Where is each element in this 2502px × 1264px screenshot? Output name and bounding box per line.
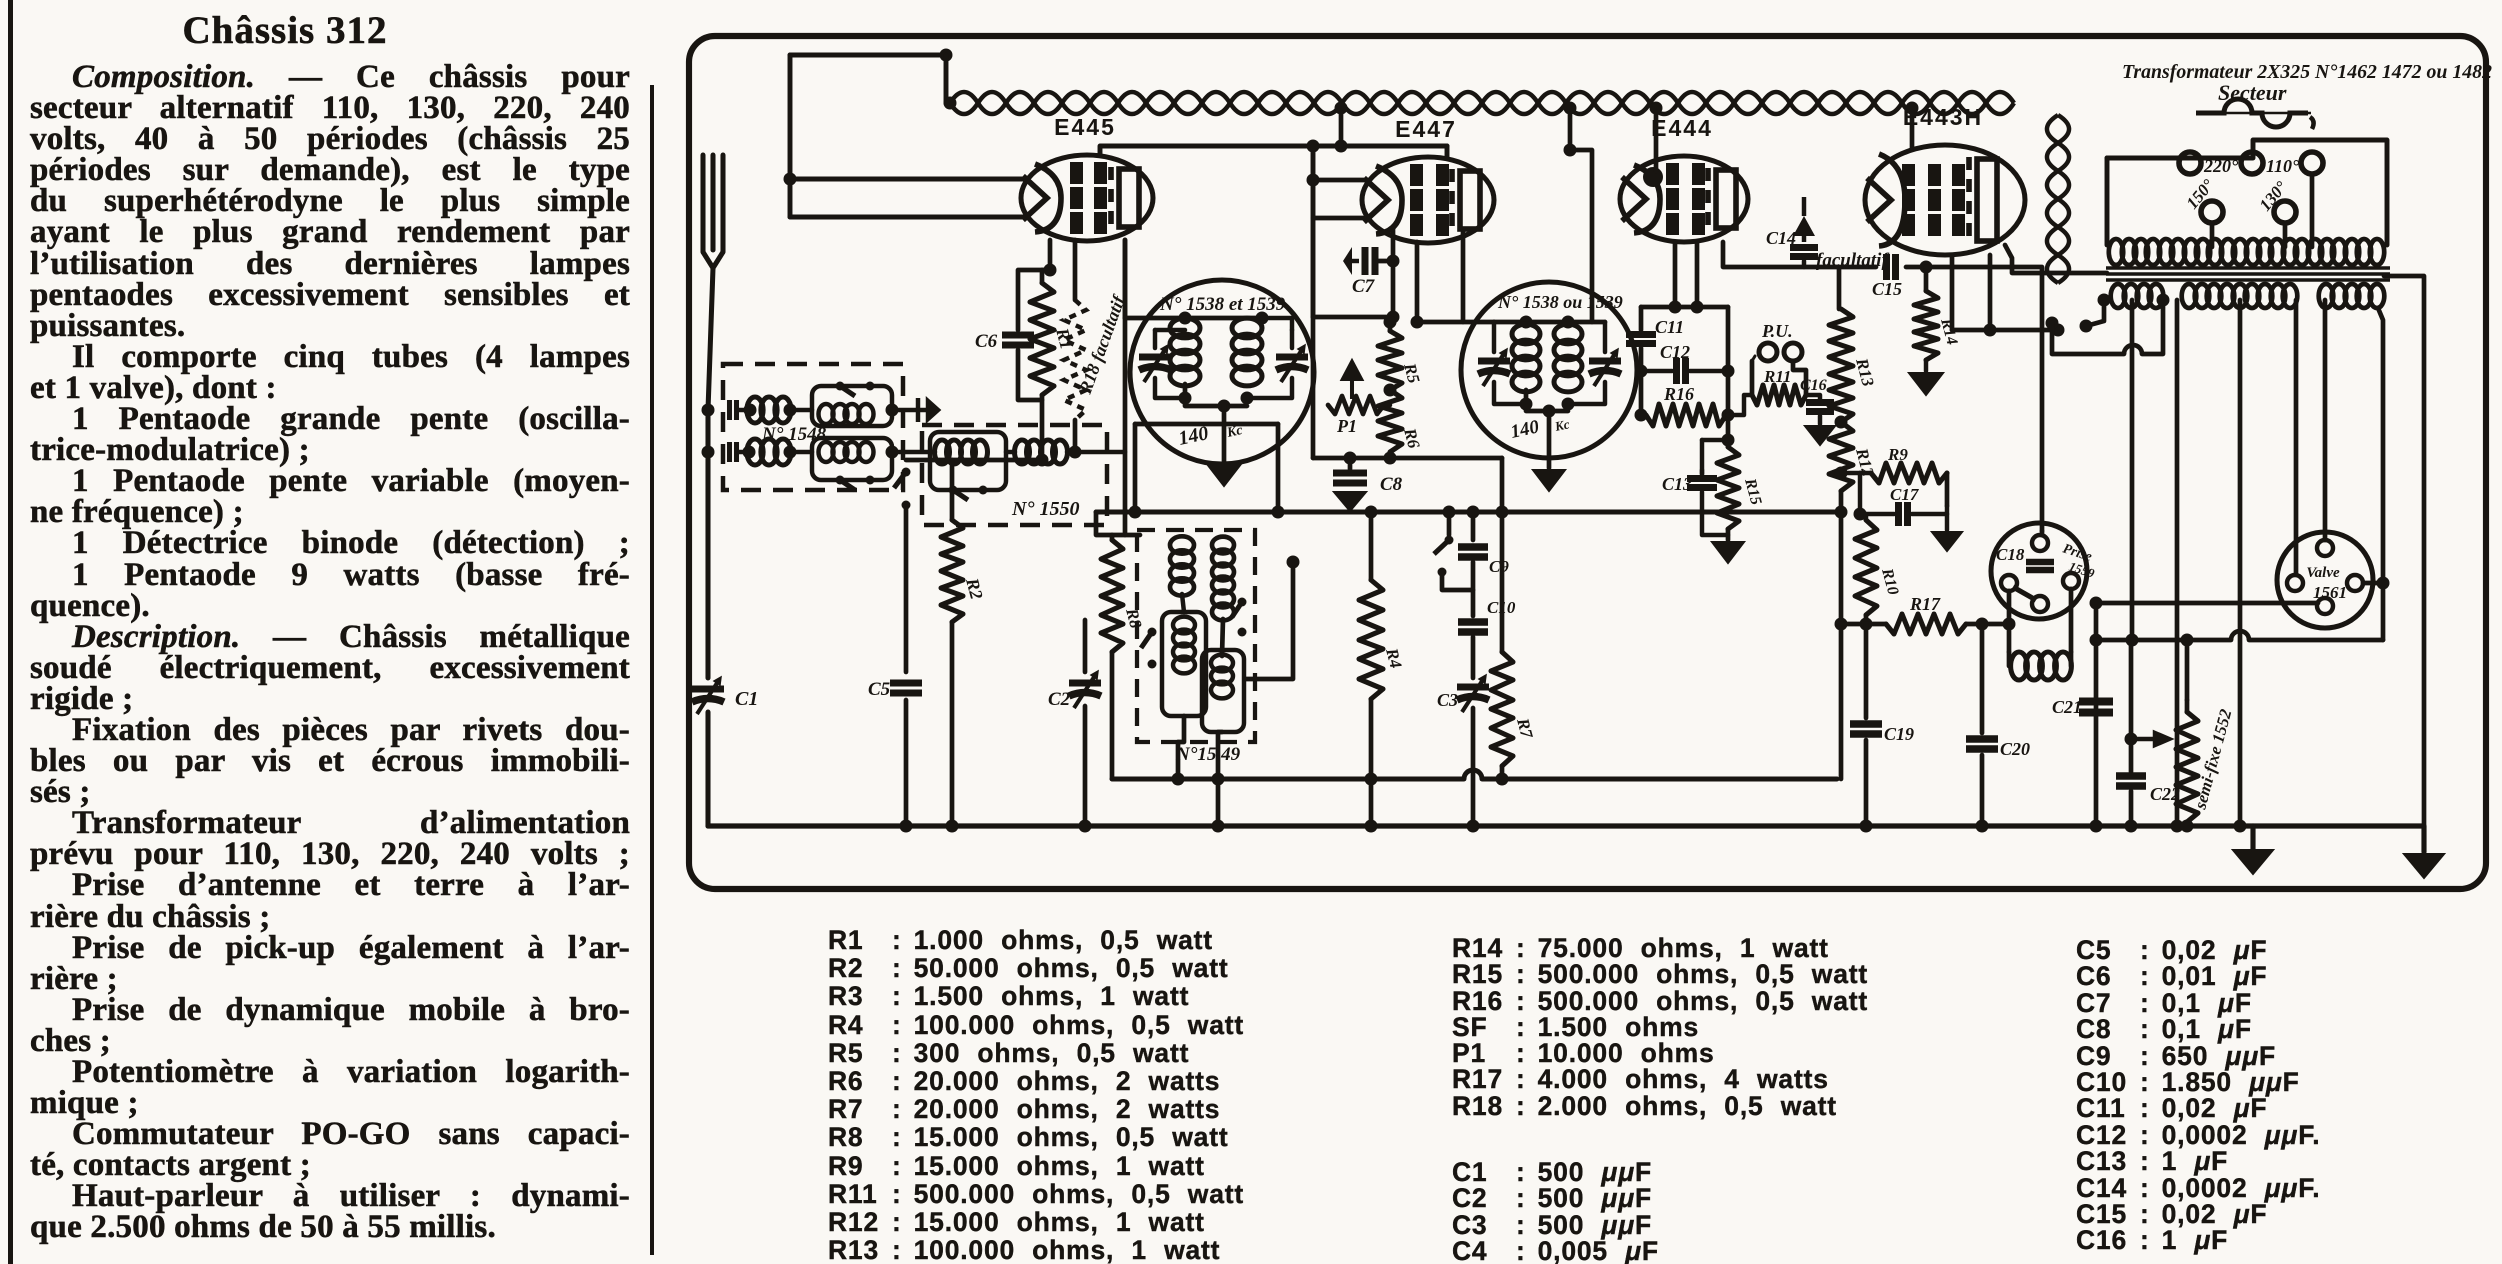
wire: E447 anode leg <box>1461 232 1466 322</box>
wire: C2 leg <box>1083 620 1088 672</box>
wire: right cell leg / R7 feed <box>1500 458 1505 652</box>
svg-text:C21: C21 <box>2052 697 2082 717</box>
svg-text:R9: R9 <box>1887 445 1908 464</box>
resistor R6 <box>1378 390 1402 452</box>
wire: IF1 top <box>1125 316 1262 321</box>
binode tube E444 <box>1620 156 1748 242</box>
wire: E443H anode to output transformer <box>2005 245 2107 273</box>
wire: PU right leg <box>1793 361 1806 395</box>
svg-text:R11: R11 <box>1763 367 1791 386</box>
capacitor (antenna series) <box>730 400 737 420</box>
ground (bus tap) <box>2233 850 2273 874</box>
svg-text:Kc: Kc <box>1553 416 1571 434</box>
wire: bus ground tap <box>2250 826 2255 850</box>
pentode tube E447 <box>1362 157 1494 243</box>
wire: braid to E443H <box>1910 112 1915 148</box>
wire: C1 to ground bus <box>705 712 710 826</box>
wire: R4 bottom <box>1369 699 1374 826</box>
wire: osc join <box>1222 619 1223 656</box>
ground (IF2) <box>1533 470 1565 491</box>
svg-text:C10: C10 <box>1487 598 1516 617</box>
wire: cathode return bus right <box>1482 777 1837 782</box>
capacitor C19 <box>1850 724 1882 734</box>
capacitor C7 with AVC arrow <box>1343 247 1352 275</box>
svg-text:R13: R13 <box>1852 355 1878 389</box>
pentode tube E445 <box>1021 155 1153 241</box>
wire: braid end to E445 top-left <box>790 53 946 58</box>
ground (R14) <box>1909 373 1943 395</box>
wire: IF2 top <box>1494 320 1605 325</box>
svg-text:C8: C8 <box>1380 474 1403 495</box>
resistor R4 <box>1359 580 1383 699</box>
wire: R16 to R11 <box>1728 395 1752 415</box>
coil: antenna secondary PO <box>747 439 791 465</box>
output pentode tube E443H <box>1865 145 2025 255</box>
node: braid tap 2 <box>1564 102 1577 115</box>
wire: heater to braid end <box>1952 328 2058 333</box>
svg-text:C9: C9 <box>1489 557 1509 576</box>
wire: R1 to cathode bus <box>1040 395 1045 460</box>
svg-text:C11: C11 <box>1655 317 1684 337</box>
svg-text:1559: 1559 <box>2067 559 2097 581</box>
wire: R17 bus <box>1841 622 1886 627</box>
resistor R12 <box>1829 422 1853 491</box>
trimmer capacitor (IF1) <box>1139 345 1171 382</box>
capacitor C5 <box>890 683 922 693</box>
wire: heater return <box>2052 323 2124 354</box>
svg-text:C16: C16 <box>1800 377 1827 394</box>
svg-text:Transformateur 2X325 N°1462: Transformateur 2X325 N°1462 1472 ou 1482 <box>2122 61 2492 83</box>
coil: osc padder winding <box>1202 650 1244 732</box>
variable capacitor C3 <box>1457 675 1489 712</box>
ground (IF1) <box>1207 464 1241 486</box>
svg-text:140: 140 <box>1509 416 1542 443</box>
wire: E444 pin leg <box>1673 242 1678 307</box>
svg-text:130°: 130° <box>2256 177 2291 214</box>
wire: to E445 grid circuit <box>1067 450 1125 454</box>
svg-text:C18: C18 <box>1996 545 2025 564</box>
rectifier valve 1561 <box>2277 532 2373 628</box>
capacitor C14 (facultatif) <box>1793 216 1815 236</box>
wire: switch leg <box>1447 512 1452 535</box>
svg-text:C17: C17 <box>1890 485 1920 504</box>
transformer core <box>2106 268 2390 280</box>
svg-text:N° 1550: N° 1550 <box>1011 498 1079 520</box>
mains plug symbol <box>2196 99 2308 127</box>
svg-text:P1: P1 <box>1336 416 1357 436</box>
wire: E445 cathode down <box>1048 240 1053 270</box>
ground (C8) <box>1334 492 1366 511</box>
svg-text:Valve: Valve <box>2306 565 2340 581</box>
coil: osc tapped winding with switch <box>1162 612 1206 716</box>
antenna <box>710 155 715 250</box>
trimmer capacitor (IF1 sec) <box>1276 345 1308 382</box>
coil: IF1 primary <box>1170 318 1200 386</box>
oscillator coil box N°1549 <box>1137 530 1255 742</box>
wire: twisted pair drop on right <box>2047 115 2069 283</box>
trimmer capacitor (IF2 sec) <box>1589 349 1621 386</box>
capacitor C10 <box>1458 622 1488 632</box>
svg-text:N°15 49: N°15 49 <box>1175 744 1241 765</box>
resistor R16 <box>1646 404 1726 426</box>
coil: transformer primary <box>2109 239 2384 265</box>
wire: down to IF2 <box>1570 150 1592 322</box>
wire: R2 to bus <box>950 622 955 826</box>
wire: HT- line right <box>2249 638 2383 643</box>
wire: tap 110 lead <box>2310 174 2315 247</box>
svg-text:C6: C6 <box>975 331 998 352</box>
wire: E445 cathode network <box>906 458 1042 463</box>
svg-text:C20: C20 <box>2000 739 2030 759</box>
wire: anode to IF2 <box>1417 320 1494 325</box>
wire: IF1 ground stem <box>1222 406 1227 462</box>
svg-text:C13: C13 <box>1662 474 1692 494</box>
coil: rectifier heater secondary <box>2319 284 2385 308</box>
resistor R9 <box>1871 463 1947 483</box>
wire: C19 leg <box>1864 624 1869 718</box>
transformer tap <box>2201 201 2223 223</box>
wire: detector node <box>1641 305 1728 310</box>
coil box N°1548 (antenna coils) <box>723 364 903 490</box>
wire: main ground bus <box>708 826 2424 852</box>
wire: AF coupling to Prise <box>1926 267 2042 531</box>
ground (detector) <box>1712 542 1744 563</box>
wire: HT lead to valve <box>2294 300 2299 574</box>
speaker socket Prise 1559 <box>1991 523 2087 619</box>
svg-text:C5: C5 <box>868 679 891 700</box>
svg-text:E443H: E443H <box>1903 104 1983 130</box>
wire: R2 top <box>950 460 955 520</box>
wire: braid to E444 top <box>1654 112 1659 171</box>
wire: HT centre tap to ground <box>2238 300 2243 826</box>
capacitor C20 <box>1966 739 1998 749</box>
svg-text:150°: 150° <box>2183 175 2218 212</box>
wire: R4 top <box>1369 512 1374 580</box>
wire: osc leg <box>1178 716 1184 779</box>
wire: to E447 <box>1313 178 1364 183</box>
transformer tap <box>2301 152 2323 174</box>
wire: valve right pin stub <box>2363 581 2383 586</box>
ground (C17) <box>1932 532 1962 551</box>
wire: HT winding lead <box>2175 300 2180 826</box>
wire: braid tap <box>1339 112 1344 146</box>
resistor R7 <box>1491 652 1513 766</box>
coil: IF2 primary <box>1512 324 1540 392</box>
resistor R5 <box>1378 331 1402 390</box>
pick-up jack P.U. <box>1759 343 1777 361</box>
svg-text:R2: R2 <box>962 575 987 601</box>
wire: to osc box <box>1096 512 1140 535</box>
wire: C8 stem <box>1348 458 1353 469</box>
variable capacitor C2 <box>1069 671 1101 708</box>
column divider rule <box>650 85 654 1255</box>
schematic border frame <box>689 36 2486 889</box>
svg-text:R10: R10 <box>1878 566 1902 597</box>
wire: AVC bus <box>1096 510 1839 515</box>
node: braid tap 1 <box>1335 102 1348 115</box>
capacitor C6 <box>1002 335 1034 345</box>
transformer tap <box>2179 152 2201 174</box>
wire: semi-fixe top <box>2185 640 2190 700</box>
ground (C16) <box>1805 426 1835 445</box>
wire: winding to valve anode <box>2323 300 2328 540</box>
coil: heater secondary <box>2111 284 2164 308</box>
capacitor C21 <box>2079 702 2113 713</box>
coil box N°1550 (oscillator coils) <box>922 425 1107 525</box>
svg-text:C2: C2 <box>1048 689 1071 710</box>
wire: C20 leg <box>1980 624 1985 733</box>
wire: cathode return bus <box>1112 777 1464 782</box>
wire: C6 branch <box>1018 270 1050 330</box>
svg-text:P.U.: P.U. <box>1761 321 1793 341</box>
wire: to E445 grid side <box>790 215 1024 220</box>
capacitor C15 <box>1887 254 1896 280</box>
svg-text:N° 1538 et 1539: N° 1538 et 1539 <box>1159 294 1286 315</box>
transformer tap <box>2241 152 2263 174</box>
wire: E447 left drop <box>1311 146 1316 317</box>
resistor R18 (facultatif, dashed) <box>1064 300 1086 420</box>
svg-text:1561: 1561 <box>2313 583 2347 602</box>
svg-text:R18 facultatif: R18 facultatif <box>1075 291 1130 397</box>
wire: C5 to bus <box>904 700 909 826</box>
wire: E447 grid leg <box>1415 242 1420 322</box>
resistor R10 <box>1855 520 1877 615</box>
wire: IF2 bottom <box>1526 390 1568 411</box>
wire: HT- line <box>2096 638 2231 643</box>
wire: E444 pin leg 2 <box>1695 242 1700 307</box>
wire: twisted-pair heater line (top) <box>950 92 2014 114</box>
coil: HT secondary <box>2182 284 2298 308</box>
wire: to E445 cathode side <box>790 177 1024 182</box>
transformer tap <box>2274 201 2296 223</box>
resistor R1 <box>1030 283 1054 395</box>
wire: tap 150 lead <box>2210 223 2215 247</box>
variable capacitor C1 <box>692 677 724 714</box>
wire: valve cathode line <box>2096 601 2318 606</box>
wire: left drop <box>788 55 793 217</box>
svg-text:R17: R17 <box>1909 594 1941 614</box>
wire: E443H heater leg <box>1950 255 1955 330</box>
capacitor C11 <box>1626 335 1656 344</box>
wire: E447 cathode leg <box>1391 228 1396 317</box>
wire: C22 leg <box>2129 640 2134 772</box>
svg-text:N° 1538 ou 1539: N° 1538 ou 1539 <box>1497 292 1623 312</box>
svg-text:220°: 220° <box>2203 156 2239 176</box>
svg-text:C7: C7 <box>1352 276 1376 297</box>
capacitor C22 <box>2116 776 2146 786</box>
wire: heater CT down <box>2130 300 2135 640</box>
resistor R17 <box>1886 614 1966 634</box>
potentiometer P1 <box>1328 396 1384 414</box>
wire: primary tap box <box>2107 140 2387 245</box>
wire: osc feedback <box>1246 562 1293 679</box>
coil: output choke <box>2011 652 2072 680</box>
svg-text:C19: C19 <box>1884 724 1914 744</box>
page left edge rule <box>8 0 13 1264</box>
wire: E443H heater leg 2 <box>1988 255 1993 330</box>
node: braid tap 3 <box>1650 102 1663 115</box>
svg-text:R16: R16 <box>1663 384 1694 404</box>
capacitor C16 <box>1806 403 1834 412</box>
capacitor C9 <box>1458 547 1488 557</box>
coil: osc padding PO in box <box>930 432 1006 490</box>
wire: arrow to oscillator section <box>918 398 938 422</box>
svg-text:C14: C14 <box>1766 228 1796 248</box>
resistor semi-fixe 1552 <box>2176 712 2198 822</box>
wire: cell left <box>1311 317 1316 458</box>
wire: tap 130 lead <box>2283 223 2288 247</box>
potentiometer P1 arrow <box>1343 362 1361 399</box>
resistor R8 <box>1101 540 1123 652</box>
svg-text:C12: C12 <box>1660 342 1690 362</box>
svg-text:C1: C1 <box>735 688 758 710</box>
wire: IF1 cage <box>1135 422 1278 427</box>
wire: antenna lead down <box>708 268 713 678</box>
svg-text:R8: R8 <box>1122 605 1146 631</box>
trimmer capacitor (IF2) <box>1478 349 1510 386</box>
coil: osc anode winding <box>1212 537 1234 621</box>
wire: E445 grid2 down <box>1073 240 1078 300</box>
IF transformer T2 N°1538 ou 1539 <box>1461 282 1637 458</box>
wire: cell bottom <box>1313 456 1502 461</box>
E444 diode pin dot <box>1643 167 1663 187</box>
wire: C17 left <box>1858 473 1862 514</box>
svg-text:C15: C15 <box>1872 279 1902 299</box>
svg-text:E444: E444 <box>1651 115 1713 141</box>
coil: antenna secondary GO with switch <box>812 438 892 480</box>
svg-text:E447: E447 <box>1395 116 1457 142</box>
wire: core to main ground <box>2384 276 2424 826</box>
arrow to semi-fixe wiper <box>2131 733 2169 745</box>
coil: antenna primary PO <box>747 397 791 423</box>
wire: IF2 ground stem <box>1547 411 1552 468</box>
wire: E445 anode to IF1 <box>1123 240 1128 318</box>
wire: IF1 bottom <box>1185 384 1247 406</box>
switch lever in socket <box>2013 587 2036 600</box>
ground (main, bottom right) <box>2404 854 2444 878</box>
capacitor C13 <box>1687 479 1717 488</box>
svg-text:110°: 110° <box>2266 156 2300 176</box>
capacitor C18 <box>2026 562 2054 570</box>
resistor R2 <box>941 520 963 622</box>
svg-text:C3: C3 <box>1437 690 1458 710</box>
capacitor C12 <box>1677 358 1686 384</box>
wire: PU left leg <box>1750 361 1755 395</box>
wire: down to osc box <box>1123 318 1128 535</box>
resistor R15 <box>1717 447 1739 529</box>
svg-text:R15: R15 <box>1741 476 1765 507</box>
resistor R11 <box>1752 385 1806 405</box>
wire: heater winding to braid <box>2086 300 2104 326</box>
wire: R8 to bus <box>1110 652 1115 779</box>
resistor R14 <box>1914 291 1938 360</box>
coil: antenna primary GO with shorting switch <box>812 386 892 426</box>
wire: R13 top <box>1837 267 1842 309</box>
wire: C9 leg <box>1471 512 1476 540</box>
wire: E445 plate-cap line to E447 <box>1100 146 1447 155</box>
wire: R12 bottom to cathode bus <box>1839 491 1844 779</box>
resistor R13 <box>1829 309 1853 422</box>
svg-text:E445: E445 <box>1054 114 1116 140</box>
wire: braid tap to E444 area <box>1568 112 1573 150</box>
wire: winding to valve right pin rail <box>2378 308 2383 640</box>
wire: C21 leg <box>2094 603 2099 826</box>
wire: socket to choke <box>2007 591 2012 652</box>
IF transformer T1 N°1538 et 1539 <box>1130 280 1314 464</box>
wire: osc leg 2 <box>1218 732 1222 826</box>
coil: osc grid winding <box>1170 536 1194 595</box>
capacitor C8 <box>1333 473 1367 483</box>
node: braid tap 4 <box>1906 102 1919 115</box>
coil: IF2 secondary <box>1554 324 1582 392</box>
capacitor C17 <box>1899 502 1908 526</box>
svg-text:R7: R7 <box>1513 715 1537 741</box>
capacitor (antenna series 2) <box>730 442 737 462</box>
coil: IF1 secondary <box>1232 318 1262 386</box>
wire: E444 anode to C15 <box>1723 242 1876 267</box>
